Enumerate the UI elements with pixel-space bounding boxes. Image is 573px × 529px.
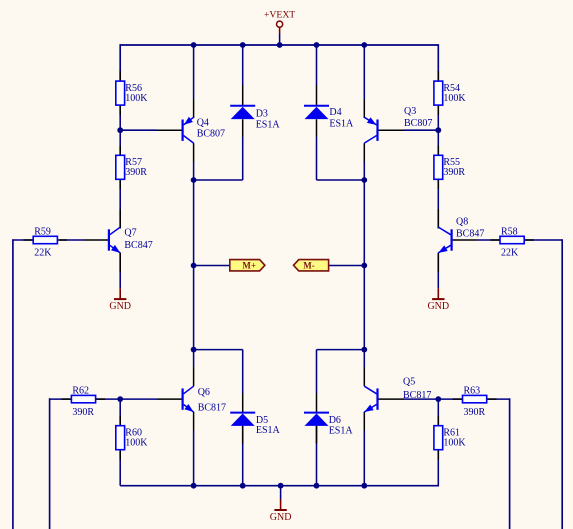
svg-text:390R: 390R <box>72 407 94 418</box>
pin R55 bottom <box>437 179 439 189</box>
pin Q4 collector <box>193 143 195 162</box>
pin Q7 base <box>84 239 108 241</box>
svg-text:390R: 390R <box>443 167 465 178</box>
junction bottom rail / D6 anode <box>314 483 320 489</box>
pin D6 anode <box>316 426 318 443</box>
pin Q8 collector <box>437 209 439 228</box>
junction bottom rail / Q5 emitter <box>361 483 367 489</box>
svg-text:Q8: Q8 <box>456 216 468 227</box>
wire rail to Q3 emitter <box>363 45 365 99</box>
junction Q3 collector / D4 anode <box>361 177 367 183</box>
pin Q4 base <box>157 129 182 131</box>
junction node R63/R61/Q5 base <box>435 396 441 402</box>
pin Q3 base <box>378 129 404 131</box>
resistor R56 <box>116 81 125 105</box>
wire D6 cathode up <box>316 350 318 394</box>
pin Q3 emitter <box>363 99 365 118</box>
transistor Q5 BC817 <box>364 377 431 413</box>
pin Q3 collector <box>363 143 365 162</box>
svg-text:22K: 22K <box>501 248 519 259</box>
wire node to D5 <box>194 349 243 351</box>
pin Q8 emitter <box>437 253 439 272</box>
pin R61 top <box>437 416 439 426</box>
junction node M- <box>361 263 367 269</box>
junction bottom rail / Q6 emitter <box>191 483 197 489</box>
transistor Q7 BC847 <box>109 227 153 253</box>
wire D5 anode down <box>242 425 244 486</box>
pin Q7 collector <box>119 209 121 228</box>
pin D6 cathode <box>316 394 318 413</box>
wire left feedback down <box>12 239 14 529</box>
pin R54 top <box>437 71 439 81</box>
pin R55 top <box>437 146 439 156</box>
svg-text:Q5: Q5 <box>403 377 415 388</box>
svg-text:R58: R58 <box>501 226 518 237</box>
wire node to D6 <box>317 349 365 351</box>
svg-text:R63: R63 <box>464 386 481 397</box>
pin R63 left <box>453 398 463 400</box>
svg-text:R59: R59 <box>34 226 51 237</box>
wire node to Q4 base <box>120 129 157 131</box>
junction top rail / +VEXT <box>277 42 283 48</box>
wire Q6 emitter down <box>193 431 195 486</box>
diode D5 ES1A <box>230 413 280 437</box>
wire left column to R56 <box>119 44 121 81</box>
svg-text:Q6: Q6 <box>198 387 210 398</box>
port M+ <box>230 260 265 271</box>
pin R59 left <box>24 239 34 241</box>
wire node to Q6 base <box>120 398 157 400</box>
pin R62 left <box>62 398 72 400</box>
wire node to Q6 collector <box>193 350 195 367</box>
resistor R58 <box>500 236 524 243</box>
svg-text:+VEXT: +VEXT <box>264 9 295 20</box>
transistor Q8 BC847 <box>438 216 484 253</box>
resistor R57 <box>116 155 125 179</box>
pin R56 top <box>119 71 121 81</box>
wire node to R60 <box>119 399 121 426</box>
svg-text:ES1A: ES1A <box>329 118 354 129</box>
resistor R54 <box>434 81 443 105</box>
wire left inner feedback down <box>49 398 51 529</box>
wire right inner feedback down <box>509 398 511 529</box>
wire Q3 collector down <box>363 162 365 180</box>
wire Q5 emitter down <box>363 431 365 486</box>
junction top rail / Q3 emitter <box>361 42 367 48</box>
wire R54 to R55 <box>437 105 439 155</box>
transistor Q6 BC817 <box>183 386 226 413</box>
resistor R60 <box>116 426 125 450</box>
wire D4 to Q3 collector <box>317 179 365 181</box>
wire D4 anode down <box>316 137 318 180</box>
wire port M- to column <box>329 265 365 267</box>
wire right feedback down <box>561 239 563 529</box>
wire R62 left <box>50 398 72 400</box>
wire node to R61 <box>437 399 439 426</box>
ground GND right (Q8 emitter) <box>427 288 449 312</box>
pin Q5 base <box>378 398 404 400</box>
pin Q7 emitter <box>119 253 121 272</box>
wire top +VEXT rail <box>120 44 438 46</box>
svg-text:R62: R62 <box>72 386 89 397</box>
svg-text:BC847: BC847 <box>456 229 484 240</box>
ground GND bottom rail <box>270 499 292 523</box>
pin R57 top <box>119 146 121 156</box>
svg-text:BC847: BC847 <box>124 240 152 251</box>
pin R59 right <box>57 239 67 241</box>
wire Q4 collector down <box>193 162 195 180</box>
resistor R63 <box>463 395 487 402</box>
resistor R61 <box>434 426 443 450</box>
wire R59 to Q7 base <box>59 239 84 241</box>
wire rail to Q4 emitter <box>193 45 195 99</box>
svg-text:D4: D4 <box>329 107 341 118</box>
wire R55 to Q8 collector <box>437 179 439 228</box>
resistor R55 <box>434 155 443 179</box>
junction top rail / D3 cathode <box>240 42 246 48</box>
wire Q5 base to node <box>404 398 438 400</box>
pin R60 bottom <box>119 450 121 460</box>
wire node to Q5 collector <box>363 350 365 367</box>
svg-text:BC807: BC807 <box>404 118 432 129</box>
pin R63 right <box>487 398 497 400</box>
pin Q5 emitter <box>363 412 365 431</box>
svg-text:22K: 22K <box>34 248 52 259</box>
wire R56 to R57 <box>119 105 121 155</box>
wire right column to R54 <box>437 44 439 81</box>
wire R61 to bottom rail <box>437 450 439 487</box>
diode D4 ES1A <box>304 106 354 130</box>
pin Q5 collector <box>363 367 365 386</box>
pin Q4 emitter <box>193 99 195 118</box>
wire R60 to bottom rail <box>119 450 121 486</box>
port M- <box>294 260 329 271</box>
junction bottom rail / GND <box>278 483 284 489</box>
pin R62 right <box>96 398 106 400</box>
junction Q4 collector / D3 anode <box>191 177 197 183</box>
svg-text:BC817: BC817 <box>198 402 226 413</box>
wire R62 to node <box>96 398 121 400</box>
pin R61 bottom <box>437 450 439 460</box>
wire D5 cathode up <box>242 350 244 394</box>
junction node M+ <box>191 263 197 269</box>
svg-text:GND: GND <box>270 512 292 523</box>
pin Q6 collector <box>193 367 195 386</box>
resistor R62 <box>71 395 95 402</box>
pin D3 anode <box>242 119 244 137</box>
svg-text:M+: M+ <box>242 261 256 271</box>
svg-text:D6: D6 <box>329 415 341 426</box>
svg-text:GND: GND <box>427 301 449 312</box>
wire Q3 base to node <box>404 129 438 131</box>
pin R56 bottom <box>119 105 121 115</box>
wire M+ column <box>193 180 195 350</box>
transistor Q3 BC807 <box>364 106 432 143</box>
pin R57 bottom <box>119 179 121 189</box>
pin Q6 base <box>157 398 182 400</box>
wire Q8 base to R58 <box>477 239 500 241</box>
wire bottom rail to GND <box>280 486 282 500</box>
wire R63 right <box>487 398 510 400</box>
junction top rail / Q4 emitter <box>191 42 197 48</box>
diode D6 ES1A <box>304 413 353 437</box>
svg-text:100K: 100K <box>443 437 466 448</box>
pin D4 cathode <box>316 86 318 106</box>
junction Q6 collector / D5 <box>191 347 197 353</box>
svg-text:Q4: Q4 <box>197 118 209 129</box>
diode D3 ES1A <box>230 106 280 131</box>
pin D5 cathode <box>242 394 244 413</box>
pin R60 top <box>119 416 121 426</box>
pin D5 anode <box>242 426 244 443</box>
svg-text:390R: 390R <box>125 167 147 178</box>
junction node R62/R60/Q6 base <box>117 396 123 402</box>
wire Q8 emitter to GND <box>437 253 439 288</box>
svg-text:100K: 100K <box>125 93 148 104</box>
pin D3 cathode <box>242 86 244 106</box>
pin R54 bottom <box>437 105 439 115</box>
wire M- column <box>363 180 365 350</box>
wire R58 right <box>524 239 562 241</box>
pin Q8 base <box>453 239 477 241</box>
pin R58 left <box>490 239 500 241</box>
svg-text:ES1A: ES1A <box>329 426 354 437</box>
wire rail to D4 cathode <box>316 45 318 86</box>
wire +VEXT to rail <box>279 34 281 46</box>
svg-text:ES1A: ES1A <box>256 425 281 436</box>
pin D4 anode <box>316 119 318 137</box>
svg-text:GND: GND <box>109 301 131 312</box>
junction node R56/R57/Q4 base <box>117 127 123 133</box>
transistor Q4 BC807 <box>183 117 225 143</box>
junction Q5 collector / D6 <box>361 347 367 353</box>
svg-text:D3: D3 <box>256 109 268 120</box>
svg-text:390R: 390R <box>464 407 486 418</box>
wire rail to D3 cathode <box>242 45 244 86</box>
wire to port M+ <box>194 265 230 267</box>
wire bottom GND rail <box>120 485 438 487</box>
wire R59 left <box>13 239 33 241</box>
wire Q7 emitter to GND <box>119 253 121 288</box>
svg-text:Q7: Q7 <box>124 228 136 239</box>
wire node to R63 <box>438 398 462 400</box>
svg-text:BC807: BC807 <box>197 128 225 139</box>
wire R57 to Q7 collector <box>119 179 121 228</box>
wire D6 anode down <box>316 425 318 486</box>
svg-text:M-: M- <box>303 261 315 271</box>
power port +VEXT <box>264 9 295 33</box>
wire D3 anode up <box>242 137 244 180</box>
wire Q4 collector to D3 <box>194 179 243 181</box>
junction node R54/R55/Q3 base <box>435 127 441 133</box>
junction top rail / D4 cathode <box>314 42 320 48</box>
resistor R59 <box>33 236 57 243</box>
svg-text:ES1A: ES1A <box>256 119 281 130</box>
svg-text:BC817: BC817 <box>403 390 431 401</box>
svg-text:Q3: Q3 <box>404 106 416 117</box>
pin Q6 emitter <box>193 412 195 431</box>
junction bottom rail / D5 anode <box>240 483 246 489</box>
ground GND left (Q7 emitter) <box>109 288 131 312</box>
svg-text:100K: 100K <box>443 93 466 104</box>
svg-text:100K: 100K <box>125 437 148 448</box>
pin R58 right <box>524 239 534 241</box>
